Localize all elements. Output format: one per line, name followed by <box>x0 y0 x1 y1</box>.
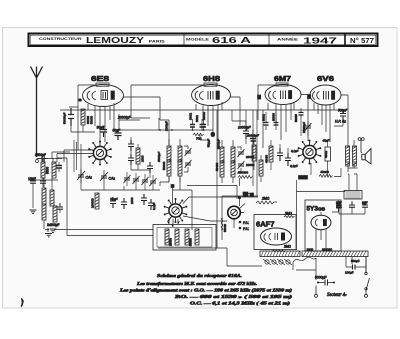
wire osc socket up <box>173 186 259 230</box>
svg-text:ANNÉE: ANNÉE <box>277 37 299 42</box>
svg-text:2MΩ: 2MΩ <box>283 245 291 249</box>
wire bar to caps right <box>346 257 366 272</box>
antenna <box>31 67 43 158</box>
svg-text:50000: 50000 <box>189 238 193 246</box>
svg-text:40000: 40000 <box>265 155 269 163</box>
svg-text:6E8: 6E8 <box>91 74 109 83</box>
capacitor 6M7gb <box>274 112 279 130</box>
coil grid 6E8 <box>81 109 85 125</box>
capacitor m1 <box>128 140 134 151</box>
svg-text:P.U.: P.U. <box>243 227 249 231</box>
junction dots rail <box>159 129 204 131</box>
resistor 100000 <box>95 193 99 209</box>
wire socket 6E8 left a <box>57 150 93 162</box>
header divider No <box>344 35 346 46</box>
capacitor dark mid b <box>201 119 206 130</box>
mains cap dots <box>317 282 335 284</box>
header box outer <box>29 34 378 47</box>
blob 6M7 pin <box>258 95 261 99</box>
capacitor mr2 <box>285 153 291 166</box>
wire 6M7 grid cap <box>258 85 276 148</box>
MF2 trimmers <box>238 149 245 169</box>
svg-text:5000pF: 5000pF <box>157 152 161 162</box>
capacitor v6a <box>299 108 304 120</box>
tube 6AF7 box <box>254 215 296 250</box>
capacitor in 5Y3 box corner <box>336 201 341 212</box>
resistor 2Mohm above 6AF7 <box>256 201 277 204</box>
rail right loop <box>227 248 316 270</box>
power transformer box <box>344 191 362 200</box>
resistor 5Mohm below 6AF7 <box>272 250 286 252</box>
cluster under 6V6 <box>290 109 348 192</box>
svg-text:6M7: 6M7 <box>274 74 291 83</box>
resistor r40000 <box>269 146 273 162</box>
capacitor 6M7 area <box>250 130 256 144</box>
svg-text:6AF7: 6AF7 <box>256 220 275 229</box>
resistor 50000 PU <box>221 218 223 230</box>
svg-text:300Ω: 300Ω <box>189 112 193 120</box>
capacitor osc pad3 <box>148 199 154 210</box>
svg-text:2MΩ: 2MΩ <box>284 212 292 216</box>
svg-text:15μF: 15μF <box>28 177 36 181</box>
capacitor 6M7ga <box>264 112 269 130</box>
terminal antenna <box>36 160 39 163</box>
svg-text:CA1: CA1 <box>86 176 93 180</box>
ground below L5 <box>50 229 57 233</box>
svg-text:20000pF: 20000pF <box>246 134 259 138</box>
terminal secteur left <box>315 286 318 298</box>
tube 6AF7 envelope <box>261 228 292 245</box>
svg-text:Les points d'alignement sont :: Les points d'alignement sont : G.O. — 18… <box>119 288 293 293</box>
svg-text:Schéma général du récepteur 61: Schéma général du récepteur 616A. <box>157 273 242 278</box>
header divider MODELE <box>183 35 185 46</box>
svg-text:10000: 10000 <box>246 163 255 167</box>
svg-text:616 A: 616 A <box>212 36 251 45</box>
box line PU area <box>222 194 258 241</box>
capacitor 2x500uF <box>57 203 63 213</box>
svg-text:PARIS: PARIS <box>149 39 166 43</box>
socket osc pin arrows <box>168 218 180 227</box>
svg-text:CONSTRUCTEUR: CONSTRUCTEUR <box>39 37 82 41</box>
cluster right of MF2 <box>246 140 299 182</box>
resistor 70ohm zigzag <box>193 133 204 136</box>
wire 6M7 plate across <box>301 95 308 142</box>
wire transformer top right <box>348 174 357 191</box>
wires m <box>131 137 150 178</box>
oscillator box outer <box>153 225 216 251</box>
svg-text:CA2: CA2 <box>109 177 116 181</box>
svg-text:6H8: 6H8 <box>203 74 220 83</box>
socket 6E8 (underside view) <box>88 141 112 166</box>
svg-text:50μF: 50μF <box>113 129 121 133</box>
trimmer t3 <box>142 177 149 185</box>
svg-text:⅒μF: ⅒μF <box>110 197 118 201</box>
wire verticals left of socket <box>74 140 81 172</box>
tube 5Y3GB envelope <box>311 215 331 229</box>
tube 6E8 envelope <box>83 83 124 107</box>
capacitor 20000pF b <box>251 137 257 145</box>
svg-text:400Ω: 400Ω <box>324 150 328 158</box>
resistor r20000 <box>252 145 256 161</box>
socket oscillator (underside view) <box>164 198 188 223</box>
capacitor h3 <box>243 127 249 139</box>
output transformer terminals <box>358 138 364 153</box>
tube 6E8 pin wires <box>88 103 114 142</box>
trimmer t1 <box>124 175 131 183</box>
capacitor 500pF <box>340 110 346 120</box>
svg-text:LEMOUZY: LEMOUZY <box>86 36 145 45</box>
wire antenna to input coil <box>37 152 71 159</box>
resistor volume zigzag <box>238 176 252 179</box>
wire 6V6 plate to transformer <box>341 95 348 140</box>
trimmer wires <box>127 172 153 189</box>
svg-text:5000μF: 5000μF <box>315 276 327 280</box>
ground bottom left <box>45 228 52 237</box>
svg-text:O.C. — 6,1 et 14,3 MHz ( 45 e: O.C. — 6,1 et 14,3 MHz ( 45 et 21 m) <box>190 301 291 306</box>
wire left section verticals <box>44 178 60 229</box>
resistor m2 <box>136 148 140 164</box>
terminal dot volume top <box>238 196 240 198</box>
svg-text:500000: 500000 <box>238 171 248 175</box>
blob 6V6 pin <box>308 95 311 99</box>
capacitor 1/10uF <box>110 197 116 208</box>
svg-text:P.U.: P.U. <box>243 221 249 225</box>
coil L3 antenna secondary tall <box>42 188 46 204</box>
svg-text:5Y3GB: 5Y3GB <box>307 206 326 213</box>
capacitor m3 <box>128 154 134 165</box>
svg-text:5000pF: 5000pF <box>217 139 221 149</box>
svg-text:6V6: 6V6 <box>317 74 334 83</box>
tube 6M7 envelope <box>265 83 301 105</box>
svg-text:300Ω: 300Ω <box>262 114 266 121</box>
capacitor 50000pF <box>68 108 74 126</box>
wire mains down left <box>293 257 316 280</box>
wire 6E8 grid cap <box>69 85 96 150</box>
coil L3b <box>42 204 46 220</box>
wire 6M7 cathode drops <box>246 110 257 196</box>
wires v <box>297 120 344 192</box>
wire osc to volume <box>183 216 227 221</box>
rail bottom left <box>45 229 153 231</box>
wires h <box>200 110 246 148</box>
tube 6V6 envelope <box>310 85 341 105</box>
svg-text:70Ω: 70Ω <box>196 137 202 141</box>
cluster under 6E8 <box>63 108 141 140</box>
MF transformer 1 coil secondary <box>178 146 182 176</box>
capacitor 50uF <box>115 129 122 140</box>
svg-text:2x500μF: 2x500μF <box>47 223 60 227</box>
power transformer winding bar <box>302 251 368 257</box>
PU terminals <box>239 221 242 230</box>
svg-text:3000pF: 3000pF <box>165 121 169 131</box>
svg-text:50000: 50000 <box>321 170 330 174</box>
tube 6H8 pin wires <box>196 102 222 140</box>
svg-text:40μF: 40μF <box>323 139 330 143</box>
capacitor input right <box>40 177 46 187</box>
svg-text:50000pF: 50000pF <box>63 112 67 124</box>
svg-text:MODÈLE: MODÈLE <box>186 37 210 42</box>
svg-text:20000: 20000 <box>169 238 173 246</box>
capacitor dark left <box>56 162 62 172</box>
coil L2 <box>52 162 56 178</box>
capacitor osc pad <box>121 198 127 209</box>
coil L4 <box>50 190 54 206</box>
svg-text:1000: 1000 <box>141 155 145 162</box>
capacitor 2500pF (antenna series) <box>38 156 48 162</box>
ground antenna section <box>30 210 37 214</box>
wires 6E8 lower <box>71 114 140 132</box>
svg-text:100000: 100000 <box>91 198 95 208</box>
MF transformer 2 coil secondary <box>231 147 235 177</box>
filter capacitor 8uF c <box>362 201 368 211</box>
selector bar <box>260 251 300 257</box>
MF2 wires <box>222 140 241 183</box>
svg-text:30000: 30000 <box>272 113 276 121</box>
dark component strip2 <box>250 193 254 197</box>
capacitor osc pad2 <box>141 194 147 205</box>
resistor r10000 <box>259 160 263 176</box>
wire input row <box>29 158 58 180</box>
wire v6 cluster <box>301 120 308 136</box>
svg-text:50000: 50000 <box>90 116 94 124</box>
svg-text:25000pF: 25000pF <box>302 122 306 133</box>
wire 6H8 grid cap <box>131 85 204 130</box>
svg-text:0,1μF: 0,1μF <box>291 149 299 153</box>
capacitor mr1 <box>277 148 283 161</box>
socket 6V6 (underside view) <box>298 140 322 165</box>
coil L5 lower pair <box>53 206 57 222</box>
cluster between socket and MF1 <box>128 137 161 178</box>
wire volume down <box>239 178 241 206</box>
svg-text:300Ω: 300Ω <box>195 115 199 122</box>
filter capacitor 8uF a <box>336 201 342 211</box>
wire left column verticals <box>57 158 153 236</box>
junction dot osc <box>171 185 174 188</box>
trimmer t2 <box>133 176 140 184</box>
filter capacitor 8uF b <box>349 201 355 211</box>
svg-text:50000: 50000 <box>294 114 298 122</box>
output transformer secondary <box>353 146 357 166</box>
capacitor 100uF right <box>346 265 361 270</box>
capacitor 30uF <box>100 126 107 137</box>
junction 6E8 heater <box>79 99 82 102</box>
speaker <box>362 149 371 165</box>
svg-text:N° 577: N° 577 <box>350 37 374 45</box>
wire MF1 secondary down <box>160 176 180 190</box>
trimmer v6 <box>305 123 312 131</box>
rectifier box 5Y3GB <box>305 200 341 251</box>
blob capacitor h2 <box>211 132 215 136</box>
svg-text:30000: 30000 <box>202 112 206 120</box>
svg-text:P.O. — 600 et 1530 » ( 50: P.O. — 600 et 1530 » ( 500 et 195 m) <box>175 294 293 299</box>
rail bottom mid <box>158 110 227 248</box>
MF transformer 1 coil primary <box>167 146 171 176</box>
wire rail y185 <box>187 186 237 200</box>
svg-text:50000: 50000 <box>162 161 166 170</box>
capacitor input left <box>30 177 36 187</box>
variable capacitor CA1 <box>77 169 85 183</box>
resistor 2Mohm right of 6AF7 <box>284 216 295 218</box>
oscillator coil d <box>195 229 199 245</box>
svg-text:1000: 1000 <box>130 197 134 204</box>
wire 6H8 to MF2 <box>231 97 241 125</box>
oscillator box inner <box>157 228 212 248</box>
svg-text:100μF: 100μF <box>345 271 354 275</box>
svg-text:50000: 50000 <box>223 224 227 232</box>
oscillator coil a <box>165 229 169 245</box>
variable capacitor CA2 <box>100 170 108 184</box>
output transformer primary <box>346 146 350 166</box>
capacitor dark mid a <box>190 119 195 130</box>
wire rail y190 left <box>81 168 160 190</box>
svg-text:5000: 5000 <box>46 167 50 174</box>
wire 6E8 plate to MF1 <box>124 97 170 146</box>
mains voltage selector row <box>263 259 292 265</box>
header box inner line <box>30 35 376 44</box>
capacitor mains <box>318 280 334 286</box>
switch secteur <box>365 256 370 297</box>
svg-text:2MΩ: 2MΩ <box>261 197 270 201</box>
main rail under tubes <box>60 109 345 111</box>
resistor 50000 v zigzag <box>319 175 333 178</box>
capacitor h1 <box>200 119 206 131</box>
MF1 trimmers <box>185 148 192 168</box>
rail y130 <box>119 129 213 131</box>
cluster under 6H8 <box>195 110 252 149</box>
oscillator coil b <box>175 229 179 245</box>
svg-text:H.P. 5Ω: H.P. 5Ω <box>335 120 346 124</box>
oscillator coil c <box>185 229 189 245</box>
wires mr <box>254 140 288 182</box>
tube 6V6 pin wires <box>314 103 334 142</box>
svg-text:1947: 1947 <box>303 35 337 45</box>
ink blot bottom left <box>21 298 24 307</box>
svg-text:2500pF: 2500pF <box>35 153 46 157</box>
svg-text:0,1μF: 0,1μF <box>290 164 298 168</box>
wire left ground drop <box>32 187 34 208</box>
power caps wires <box>339 201 365 214</box>
dark component strip <box>243 192 248 197</box>
tube 6M7 pin wires <box>268 102 294 140</box>
tube 6H8 envelope <box>192 83 231 106</box>
selector hatch <box>261 251 300 257</box>
trimmer cluster <box>124 172 157 189</box>
header divider ANNEE <box>268 35 270 46</box>
dark component v <box>299 176 308 180</box>
output transformer wires <box>348 140 358 172</box>
trimmer t4 <box>150 178 157 186</box>
coil L1 antenna primary <box>41 162 45 178</box>
svg-text:10000pF: 10000pF <box>238 126 252 130</box>
potentiometer volume <box>228 204 245 219</box>
MF transformer 2 coil primary <box>220 147 224 177</box>
svg-text:Secteur 4v: Secteur 4v <box>327 293 347 298</box>
svg-text:Les transformateurs M.F. sont: Les transformateurs M.F. sont accordés s… <box>136 281 257 286</box>
wire HT rail <box>297 191 346 251</box>
resistor rect 40uF <box>325 147 331 161</box>
capacitor m4 <box>147 162 153 173</box>
svg-text:0,1μF: 0,1μF <box>152 202 156 210</box>
wire pot bottom <box>233 219 235 228</box>
MF1 wires <box>169 139 188 182</box>
5Y3GB wires <box>316 212 339 251</box>
